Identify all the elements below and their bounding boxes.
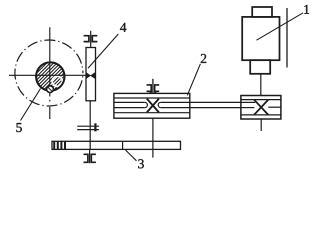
rack divider (122, 141, 124, 149)
leader 4 (88, 34, 118, 68)
key (roller on hub) (47, 86, 54, 93)
rack left striped end (54, 141, 65, 149)
leader 2 (187, 64, 200, 96)
vertical centerline (49, 27, 51, 96)
shaft bore circle inside hub (51, 75, 63, 87)
guide frame below rack (84, 149, 96, 163)
label 1 (304, 5, 309, 14)
stub below bearing box (260, 119, 262, 131)
horizontal centerline (9, 74, 86, 76)
X of nut box 2 (147, 99, 159, 113)
hub outline (redrawn) (36, 62, 64, 90)
bearing right mid line (268, 106, 281, 108)
wheel pitch circle (dash-dot) (15, 40, 83, 106)
guide frame above nut box (147, 79, 160, 94)
wall line right of motor (286, 8, 288, 68)
rod through rack (89, 141, 91, 149)
guide frame above slider (84, 31, 98, 48)
screw shaft double line (114, 102, 255, 107)
centerline over hub (36, 74, 64, 76)
label 5 (16, 123, 21, 132)
rod below slider (89, 101, 91, 142)
motor shaft (260, 74, 262, 96)
bowtie joint in slider (86, 73, 94, 79)
rack bar 3 (52, 141, 181, 149)
adjuster (double tick) on rod (77, 123, 99, 131)
label 3 (138, 159, 144, 168)
X of bearing box (254, 100, 268, 115)
screw end into bearing (241, 101, 255, 103)
motor bottom boss (250, 60, 270, 74)
motor top boss (252, 7, 272, 17)
slider 4 (vertical block) (86, 48, 96, 101)
label 2 (201, 54, 206, 63)
bearing box (241, 96, 281, 120)
leader 5 (21, 89, 41, 121)
leader 1 (257, 13, 304, 40)
rod from nut box to rack (152, 118, 154, 157)
leader 3 (126, 150, 137, 161)
shaft hub (hatched circle) (36, 62, 64, 90)
label 4 (120, 23, 126, 32)
motor 1 body (242, 17, 279, 60)
nut box 2 (114, 93, 190, 118)
